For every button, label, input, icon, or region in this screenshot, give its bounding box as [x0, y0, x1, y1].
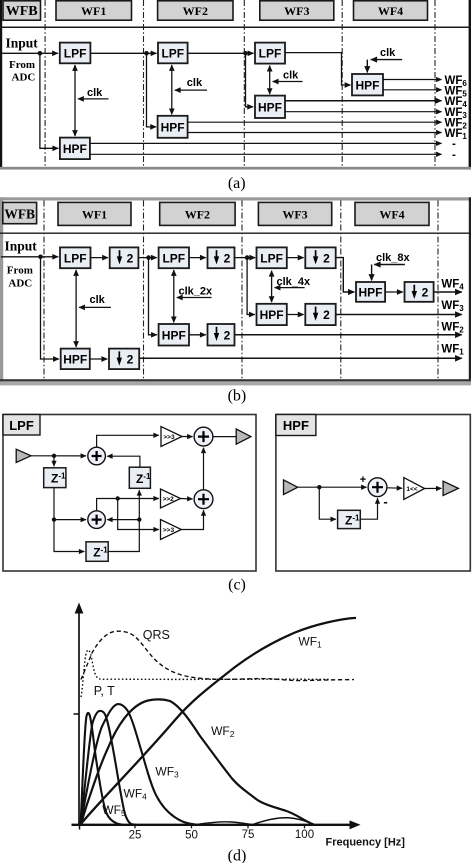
node input junction (a) — [38, 51, 43, 56]
wire header separator (a) — [0, 26, 471, 28]
svg-text:HPF: HPF — [260, 308, 284, 322]
svg-text:2: 2 — [323, 308, 330, 322]
svg-text:-: - — [452, 149, 456, 161]
downsampler 2 block WF1-HPF (b) — [109, 349, 139, 370]
node label WF1 (d) — [298, 635, 322, 650]
wire DS2 to LPF3 (b) — [235, 257, 256, 259]
HPF block WF2 (b) — [159, 324, 189, 346]
svg-text:2: 2 — [224, 252, 231, 266]
shifter >>3 top (c-LPF) — [161, 427, 182, 447]
wire HPF1 output dash2 (a) — [90, 153, 442, 155]
wire adder to shifter (c-HPF) — [387, 487, 402, 489]
wire LPF1-LPF2 (a) — [90, 52, 156, 54]
node input junction (c-HPF) — [317, 485, 321, 489]
svg-text:2: 2 — [127, 252, 134, 266]
wire node C to shifter >>3 bottom (c-LPF) — [118, 499, 159, 530]
wire junction to Z1a (c-LPF) — [53, 456, 55, 466]
clk vertical WF1 (b) — [75, 270, 77, 347]
wire input branch to HPF1 (b) — [41, 257, 59, 359]
node output label WF5 (a) — [445, 85, 468, 98]
svg-text:2: 2 — [323, 252, 330, 266]
node WF4 header (b) — [355, 202, 429, 225]
wire branch to HPF2 (a) — [147, 53, 157, 127]
curve WF4 (d) — [81, 711, 137, 825]
adder U5 (c-HPF) — [368, 478, 387, 497]
wire HPF3 output WF4 (a) — [285, 100, 442, 102]
svg-text:>>3: >>3 — [163, 527, 175, 534]
node output label WF1 (a) — [445, 128, 468, 141]
downsampler 2 block WF4 (b) — [405, 282, 434, 302]
node caption (d) — [228, 848, 247, 863]
delay Z1a (c-LPF) — [44, 468, 66, 488]
shifter >>3 bottom (c-LPF) — [161, 520, 182, 540]
wire into adder2 right (c-LPF) — [107, 519, 139, 521]
wire header separator (b) — [0, 232, 471, 234]
node HPF label box (c) — [276, 415, 316, 436]
wire HPF3 to DS (b) — [287, 314, 304, 316]
adder U4 (c-LPF) — [194, 490, 213, 509]
node junction WF2 (a) — [144, 51, 149, 56]
wire dashdot separator b2 — [143, 201, 145, 380]
node WF3 header (b) — [258, 202, 331, 225]
svg-text:WF4: WF4 — [379, 208, 404, 222]
node label WF3 (d) — [155, 765, 179, 780]
wire branch to HPF3 (a) — [246, 53, 254, 107]
svg-text:LPF: LPF — [260, 251, 283, 265]
wire adder3 to output (c-LPF) — [213, 436, 236, 438]
svg-text:WF3: WF3 — [282, 208, 307, 222]
node junction WF2 (b) — [146, 255, 151, 260]
wire HPF1 output dash1 (a) — [90, 142, 442, 144]
wire WF2 output line (b) — [235, 334, 462, 336]
node WF2 header (a) — [158, 1, 233, 20]
wire Z1a to adder2 (c-LPF) — [54, 488, 86, 520]
svg-text:WF1: WF1 — [81, 4, 106, 18]
HPF block WF3 (a) — [255, 96, 285, 118]
svg-text:clk: clk — [283, 70, 299, 82]
node output label WF4 (a) — [445, 96, 468, 109]
svg-text:HPF: HPF — [162, 329, 186, 343]
svg-text:HPF: HPF — [356, 79, 380, 93]
node label WF4 (d) — [124, 787, 148, 802]
svg-text:clk_4x: clk_4x — [277, 276, 312, 288]
node LPF label box (c) — [3, 415, 40, 436]
node WF1 header (a) — [56, 1, 132, 20]
clk vertical WF3 (a) — [269, 66, 271, 95]
svg-text:LPF: LPF — [9, 418, 34, 433]
wire shifter top to adder3 (c-LPF) — [182, 436, 193, 438]
LPF block WF2 (a) — [158, 43, 188, 64]
delay Z1c (c-LPF) — [86, 542, 108, 562]
wire DS1 to LPF2 (b) — [138, 257, 156, 259]
svg-text:HPF: HPF — [161, 121, 185, 135]
node output label WF6 (a) — [445, 75, 468, 88]
wire LPF2 to DS2 (b) — [189, 257, 206, 259]
node label QRS (d) — [143, 628, 170, 642]
svg-text:clk_8x: clk_8x — [376, 252, 411, 264]
svg-text:LPF: LPF — [162, 251, 185, 265]
node tick label 100 (d) — [295, 829, 314, 841]
LPF block WF3 (b) — [257, 247, 287, 268]
wire HPF4 to DS (b) — [385, 291, 403, 293]
svg-text:clk: clk — [87, 87, 103, 99]
curve WF3 sidelobe (d) — [196, 822, 252, 825]
wire input (b) — [1, 256, 58, 258]
svg-text:HPF: HPF — [283, 418, 309, 433]
node output label WF1 (b) — [441, 343, 464, 356]
node WF1 header (b) — [58, 202, 131, 225]
wire LPF1 to DS1 (b) — [91, 257, 109, 259]
svg-text:HPF: HPF — [63, 353, 87, 367]
wire WF1 output line (b) — [139, 357, 462, 359]
wire adder1 out to shifter (c-LPF) — [97, 435, 159, 447]
wire panel-b right border — [469, 197, 471, 381]
node tick label 50 (d) — [185, 829, 198, 841]
clk vertical WF2 (b) — [173, 270, 175, 322]
svg-text:WF4: WF4 — [378, 4, 403, 18]
node LPF outer box (c) — [3, 415, 256, 572]
wire shifter to output (c-HPF) — [425, 487, 442, 489]
node Input label (a) — [6, 36, 39, 84]
svg-text:Input: Input — [5, 239, 38, 254]
node tick label 25 (d) — [129, 829, 142, 841]
wire HPF3 output WF3 (a) — [285, 111, 442, 113]
node WF2 header (b) — [160, 202, 235, 225]
clk label WF3 (a) — [273, 70, 303, 82]
curve WF5 (d) — [81, 713, 124, 825]
wire panel-a bottom border — [0, 167, 471, 170]
svg-text:1<<: 1<< — [406, 486, 417, 493]
svg-text:(a): (a) — [228, 175, 246, 192]
svg-text:2: 2 — [127, 353, 134, 367]
wire dashdot separator a3 — [243, 0, 245, 167]
wire HPF1 to DS (b) — [90, 358, 108, 360]
clk label WF2 (a) — [175, 77, 207, 90]
node output label WF4 (b) — [441, 279, 464, 292]
wire panel-b left border — [0, 197, 3, 385]
wire dashdot separator b5 — [437, 201, 439, 380]
wire input to HPF1 (a) — [40, 53, 58, 148]
shifter 1 left-shift (c-HPF) — [404, 478, 425, 500]
svg-text:ADC: ADC — [8, 278, 32, 290]
downsampler 2 block WF3-HPF (b) — [305, 304, 335, 325]
wire HPF4 output WF5 (a) — [383, 89, 442, 91]
clk_2x label WF2 (b) — [177, 286, 213, 298]
wire panel-a right border — [469, 0, 471, 168]
HPF block WF1 (b) — [61, 349, 90, 370]
clk vertical WF3 (b) — [271, 271, 273, 302]
svg-text:+: + — [360, 474, 366, 486]
node output label WF3 (b) — [441, 300, 464, 313]
svg-text:HPF: HPF — [359, 286, 383, 300]
downsampler 2 block WF1 (b) — [110, 247, 139, 268]
curve P T dotted (d) — [81, 650, 330, 697]
node output label WF2 (a) — [445, 118, 468, 131]
buffer output triangle (c-HPF) — [443, 481, 458, 495]
svg-text:HPF: HPF — [258, 101, 282, 115]
wire HPF2 output WF1 (a) — [188, 132, 442, 134]
node junction B (c-LPF) — [52, 517, 56, 521]
node output dash label 2 (a) — [452, 149, 456, 161]
wire dashdot separator a2 — [143, 0, 145, 167]
svg-text:LPF: LPF — [64, 47, 87, 61]
node x-axis (d) — [72, 820, 361, 829]
svg-text:LPF: LPF — [259, 47, 282, 61]
node WFB header (a) — [3, 1, 41, 20]
svg-text:clk_2x: clk_2x — [179, 286, 214, 298]
downsampler 2 block WF3 (b) — [305, 247, 335, 268]
node caption (a) — [228, 175, 246, 192]
node output dash label 1 (a) — [452, 138, 456, 150]
svg-text:2: 2 — [422, 286, 429, 300]
node input junction (c-LPF) — [52, 454, 56, 458]
wire panel-b top border — [0, 197, 471, 200]
node y-axis (d) — [74, 603, 84, 827]
node tick label 75 (d) — [242, 829, 255, 841]
svg-text:WF3: WF3 — [284, 4, 309, 18]
clk vertical WF1 (a) — [74, 65, 76, 136]
wire adder4 to adder3 (c-LPF) — [203, 448, 205, 490]
svg-text:Input: Input — [6, 36, 39, 51]
svg-text:clk: clk — [90, 294, 106, 306]
wire WF3 output line (b) — [336, 314, 462, 316]
downsampler 2 block WF2 (b) — [208, 247, 235, 268]
wire DS3 to HPF4 (b) — [336, 258, 355, 292]
svg-text:LPF: LPF — [64, 251, 87, 265]
node junction at adder2 right (c-LPF) — [137, 517, 141, 521]
node output label WF2 (b) — [441, 321, 464, 334]
node caption (c) — [228, 577, 246, 594]
wire dashdot separator b4 — [340, 201, 342, 380]
node output label WF3 (a) — [445, 107, 468, 120]
clk_8x label WF4 (b) — [372, 252, 411, 280]
delay Z1b (c-LPF) — [129, 467, 151, 488]
wire branch to HPF3 (b) — [247, 258, 255, 315]
clk label WF1 (b) — [79, 294, 111, 307]
node junction WF3 (b) — [245, 255, 250, 260]
wire shifter >>3 bottom to adder4 (c-LPF) — [181, 510, 203, 529]
adder U2 (c-LPF) — [88, 511, 106, 529]
wire input (a) — [1, 52, 58, 54]
node label WF5 (d) — [102, 803, 126, 818]
svg-text:>>3: >>3 — [163, 434, 175, 441]
svg-text:WF2: WF2 — [185, 208, 210, 222]
node label P T (d) — [94, 684, 115, 698]
svg-text:clk: clk — [380, 47, 396, 59]
svg-text:WF1: WF1 — [82, 208, 107, 222]
downsampler 2 block WF2-HPF (b) — [208, 324, 235, 346]
svg-text:P, T: P, T — [94, 684, 115, 698]
wire input to adder (c-HPF) — [298, 486, 367, 488]
wire dashdot separator b1 — [43, 201, 45, 380]
svg-text:50: 50 — [185, 829, 198, 841]
clk label WF1 (a) — [78, 87, 109, 99]
wire Z1c feedback up to Z1b (c-LPF) — [108, 490, 139, 551]
LPF block WF1 (a) — [60, 43, 91, 64]
node WFB header (b) — [3, 202, 37, 223]
svg-text:(d): (d) — [228, 848, 247, 863]
svg-text:LPF: LPF — [161, 47, 184, 61]
node caption (b) — [228, 388, 247, 405]
wire Z to adder bottom (c-HPF) — [360, 498, 377, 519]
svg-text:HPF: HPF — [63, 142, 87, 156]
wire branch to HPF2 (b) — [149, 258, 157, 335]
curve WF3 (d) — [81, 704, 197, 825]
svg-text:(c): (c) — [228, 577, 246, 594]
wire input to adder1 (c-LPF) — [31, 455, 86, 457]
svg-text:2: 2 — [224, 328, 231, 342]
wire dashdot separator a4 — [341, 0, 343, 167]
delay Z1 (c-HPF) — [338, 510, 361, 528]
wire shifter >>2 to adder4 (c-LPF) — [181, 498, 193, 501]
node axis label Frequency (d) — [326, 836, 406, 848]
wire adder2 out to node C (c-LPF) — [97, 499, 159, 511]
clk label WF4 (a) — [367, 47, 402, 73]
node WF3 header (a) — [260, 1, 334, 20]
wire WF4 output line (b) — [434, 291, 462, 293]
svg-text:-: - — [383, 494, 387, 509]
svg-text:25: 25 — [129, 829, 142, 841]
svg-text:>>2: >>2 — [163, 496, 175, 503]
curve QRS dashed (d) — [81, 631, 354, 680]
svg-text:ADC: ADC — [12, 72, 36, 84]
wire Z1b to adder1 right (c-LPF) — [107, 456, 140, 467]
HPF block WF4 (b) — [356, 282, 385, 302]
adder U1 (c-LPF) — [88, 447, 106, 465]
svg-text:From: From — [7, 265, 33, 277]
node HPF outer box (c) — [276, 415, 470, 572]
svg-text:clk: clk — [187, 77, 203, 89]
wire LPF3 to DS3 (b) — [287, 257, 304, 259]
LPF block WF1 (b) — [60, 247, 91, 268]
LPF block WF2 (b) — [159, 247, 189, 268]
node minus sign (c-HPF) — [383, 494, 387, 509]
HPF block WF2 (a) — [158, 116, 188, 138]
shifter >>2 (c-LPF) — [161, 489, 181, 508]
node junction C (c-LPF) — [116, 496, 120, 500]
wire junction B to Z1c (c-LPF) — [54, 520, 84, 552]
LPF block WF3 (a) — [255, 43, 285, 64]
curve WF2 (d) — [81, 699, 314, 825]
node plus sign (c-HPF) — [360, 474, 366, 486]
clk vertical WF2 (a) — [171, 65, 173, 114]
node input junction (b) — [38, 254, 43, 259]
HPF block WF3 (b) — [257, 304, 287, 325]
svg-text:Frequency [Hz]: Frequency [Hz] — [326, 836, 406, 848]
node Input label (b) — [5, 239, 38, 290]
wire dashdot separator a5 — [434, 0, 436, 167]
wire panel-a left border — [0, 0, 2, 168]
curve WF1 (d) — [80, 618, 356, 825]
wire feedback to Z (c-HPF) — [319, 487, 336, 519]
node WF4 header (a) — [354, 1, 428, 20]
wire LPF3 out to HPF4 (a) — [285, 53, 351, 85]
node junction WF3 (a) — [243, 51, 248, 56]
buffer input triangle (c-HPF) — [284, 480, 298, 495]
svg-text:QRS: QRS — [143, 628, 170, 642]
wire HPF2 output WF2 (a) — [188, 121, 442, 123]
clk_4x label WF3 (b) — [275, 276, 311, 288]
wire LPF2-LPF3 (a) — [188, 52, 254, 54]
svg-text:100: 100 — [295, 829, 314, 841]
curve WF2 sidelobe (d) — [252, 818, 314, 825]
svg-text:(b): (b) — [228, 388, 247, 405]
adder U3 (c-LPF) — [194, 427, 213, 446]
wire HPF4 output WF6 (a) — [383, 79, 442, 81]
HPF block WF4 (a) — [352, 74, 383, 95]
buffer input triangle (c-LPF) — [16, 449, 31, 462]
svg-text:WF2: WF2 — [183, 4, 208, 18]
svg-text:75: 75 — [242, 829, 255, 841]
svg-text:WFB: WFB — [6, 4, 38, 19]
wire HPF2 to DS (b) — [189, 334, 206, 336]
svg-text:From: From — [9, 59, 35, 71]
svg-text:WFB: WFB — [4, 207, 35, 222]
wire dashdot separator b3 — [241, 201, 243, 380]
node label WF2 (d) — [211, 724, 235, 739]
buffer output triangle (c-LPF) — [236, 429, 251, 444]
wire dashdot separator a1 — [44, 0, 46, 167]
HPF block WF1 (a) — [60, 138, 90, 160]
wire panel-b bottom border — [0, 379, 471, 385]
